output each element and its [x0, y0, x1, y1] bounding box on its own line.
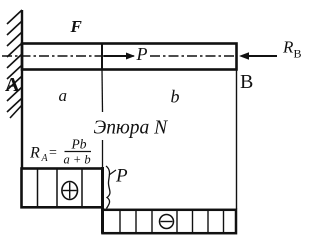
bar (rod): [22, 44, 237, 70]
centerline (dash-dot): [2, 55, 236, 57]
svg-text:A: A: [5, 74, 20, 96]
svg-text:A: A: [41, 153, 49, 164]
svg-text:Эпюра N: Эпюра N: [94, 118, 169, 139]
hatch lines negative block: [120, 211, 224, 233]
svg-text:B: B: [240, 71, 253, 93]
section divider line: [101, 44, 103, 69]
svg-text:b: b: [171, 87, 180, 107]
force P arrow: [104, 55, 128, 57]
brace marking step P: [106, 166, 110, 209]
svg-text:R: R: [282, 38, 294, 57]
reaction R_B arrow: [245, 55, 277, 57]
right boundary line from B: [236, 70, 238, 209]
svg-text:=: =: [49, 146, 57, 161]
svg-text:Pb: Pb: [71, 137, 87, 152]
svg-text:a + b: a + b: [64, 153, 91, 167]
svg-text:P: P: [115, 166, 128, 187]
hatch lines positive block: [38, 170, 83, 208]
svg-text:R: R: [29, 145, 40, 162]
wall line A: [21, 10, 23, 168]
minus sign circle: [160, 215, 174, 229]
svg-text:B: B: [294, 47, 302, 61]
svg-text:a: a: [59, 86, 68, 105]
svg-text:F: F: [70, 17, 83, 36]
thick step line at section: [101, 167, 104, 234]
negative block of diagram: [103, 210, 237, 233]
wall hatching: [7, 10, 22, 118]
formula R_A = Pb/(a+b): [29, 137, 91, 167]
svg-text:P: P: [136, 44, 148, 64]
plus sign circle: [62, 182, 78, 200]
positive block of diagram: [22, 169, 103, 208]
